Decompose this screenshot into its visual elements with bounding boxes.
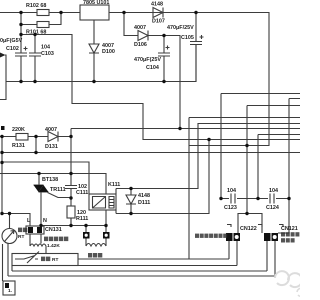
node ground C104: [162, 80, 165, 83]
wire relay top stub: [115, 189, 117, 214]
svg-text:RT: RT: [18, 234, 24, 240]
svg-text:C105: C105: [181, 35, 194, 41]
svg-text:R102 68: R102 68: [26, 3, 46, 9]
input arrow left: [0, 53, 6, 58]
node D131 output: [69, 135, 72, 138]
svg-text:7805 U101: 7805 U101: [83, 0, 109, 6]
resistor R101: [37, 22, 49, 28]
svg-text:C104: C104: [146, 65, 159, 71]
node heater left: [84, 224, 87, 227]
thermostat box: [12, 254, 78, 266]
node D111 anode: [129, 187, 132, 190]
relay contact: [109, 197, 114, 209]
wire CN122 leads: [229, 241, 237, 266]
diode D100: [89, 20, 99, 82]
wire relay top loop: [116, 124, 300, 189]
wire bus y98: [278, 99, 300, 234]
svg-text:220K: 220K: [12, 127, 25, 133]
wire R131 row: [0, 136, 48, 138]
heater plate leads: [86, 238, 106, 246]
heater pin right: [103, 232, 110, 239]
wire bottom bus y271: [12, 266, 267, 272]
svg-text:D131: D131: [45, 144, 58, 150]
svg-text:1.: 1.: [8, 288, 12, 294]
svg-text:R101 68: R101 68: [26, 30, 46, 36]
node mains N row: [39, 224, 42, 227]
capacitor C104: [158, 36, 170, 82]
node ground C103: [33, 80, 36, 83]
triac TR111: [34, 174, 72, 227]
node R131 output: [34, 135, 37, 138]
capacitor C103: [29, 35, 41, 82]
node C105 top: [194, 11, 197, 14]
svg-text:R131: R131: [12, 143, 25, 149]
node R111 bottom: [69, 224, 72, 227]
resistor R111: [67, 206, 75, 218]
ground rail: [6, 45, 196, 82]
node heater right: [104, 224, 107, 227]
wire U101 output rail: [109, 13, 269, 146]
capacitor C102: [15, 35, 28, 82]
node ground C102: [19, 80, 22, 83]
node bus B left: [0, 161, 3, 164]
svg-text:470μF/25V: 470μF/25V: [167, 25, 194, 31]
svg-text:N: N: [43, 218, 47, 224]
svg-text:D100: D100: [102, 49, 115, 55]
wire bus y93: [221, 94, 300, 199]
svg-text:C103: C103: [41, 51, 54, 57]
wire bottom bus y276: [8, 275, 275, 277]
wire CN131 down: [30, 234, 41, 246]
svg-text:C123: C123: [224, 205, 237, 211]
wire bus y134: [258, 135, 300, 199]
node R102 output: [59, 11, 62, 14]
resistor R131: [16, 134, 28, 141]
wire bus y128: [71, 128, 300, 130]
pot sensor circle: [2, 229, 17, 244]
svg-text:4148: 4148: [138, 193, 150, 199]
wire bottom bus y259: [38, 258, 229, 260]
diode D111: [126, 189, 136, 214]
svg-text:CN121: CN121: [281, 226, 298, 232]
diode D106: [138, 31, 148, 41]
node y145 tap: [245, 144, 248, 147]
node mains L: [0, 212, 3, 215]
connector CN122 pins: [226, 225, 240, 242]
wire relay bottom loop: [116, 140, 209, 214]
wire left input: [0, 55, 6, 100]
node C104 top: [162, 34, 165, 37]
svg-text:1.42K: 1.42K: [47, 243, 60, 249]
capacitor C123: [231, 194, 235, 204]
wire D106 branch: [124, 13, 180, 129]
node triac MT2: [37, 172, 40, 175]
node sensor circle feed: [8, 212, 11, 215]
svg-text:R111: R111: [76, 216, 88, 222]
regulator U101: [80, 5, 109, 20]
svg-text:C111: C111: [76, 190, 88, 196]
wire L feed: [2, 214, 30, 229]
node relay drive tap: [207, 138, 210, 141]
watermark: [275, 271, 305, 296]
node C111 top: [69, 172, 72, 175]
node C103 top: [33, 33, 36, 36]
wire R101 row: [21, 13, 61, 35]
svg-text:4148: 4148: [151, 2, 163, 8]
svg-text:104: 104: [227, 188, 236, 194]
node U101 output: [122, 11, 125, 14]
wire connector split: [238, 214, 262, 234]
node top rail / R102 input: [19, 11, 22, 14]
relay K111 box: [89, 194, 116, 210]
node C124 left: [256, 197, 259, 200]
Chinese label blobs: [18, 228, 299, 262]
svg-text:470μF(25V: 470μF(25V: [134, 57, 161, 63]
wire sensor leads: [3, 244, 9, 282]
svg-text:D107: D107: [152, 19, 165, 25]
plug box: [3, 281, 15, 295]
diode D131: [48, 132, 58, 142]
wire x71 column: [70, 129, 72, 226]
wire CN121 leads: [267, 241, 275, 276]
wire bus y105: [247, 106, 300, 214]
svg-text:CN122: CN122: [240, 226, 257, 232]
node ground D100: [92, 80, 95, 83]
wire bus y154: [2, 152, 300, 154]
svg-text:K111: K111: [108, 182, 120, 188]
node triac gate: [69, 196, 72, 199]
node bus A tap: [34, 151, 37, 154]
svg-text:104: 104: [41, 45, 50, 51]
connector CN131: [26, 226, 44, 234]
svg-text:TR111: TR111: [50, 187, 66, 193]
capacitor C111: [65, 186, 77, 189]
node left rail tick: [1, 126, 5, 130]
heater pin left: [83, 232, 90, 239]
svg-text:104: 104: [269, 188, 278, 194]
resistor R102: [37, 10, 49, 16]
wire N heater row: [41, 218, 106, 232]
wire bus y173: [0, 174, 106, 234]
wire top rail left: [0, 12, 80, 14]
capacitor C124: [270, 194, 274, 204]
wire left rail: [1, 137, 3, 214]
wire 12V feed: [21, 35, 300, 140]
svg-text:4007: 4007: [45, 127, 57, 133]
svg-text:BT138: BT138: [42, 177, 58, 183]
node C123 left: [219, 197, 222, 200]
svg-text:4007: 4007: [134, 25, 146, 31]
svg-text:RT: RT: [52, 257, 58, 263]
node 12V bus tap: [178, 127, 181, 130]
capacitor C105: [190, 13, 204, 82]
connector CN121 pins: [258, 225, 283, 242]
node D111 cathode: [129, 212, 132, 215]
svg-text:D111: D111: [138, 200, 150, 206]
heater plate coil: [86, 244, 106, 247]
wire bus y162: [2, 162, 89, 194]
svg-text:C124: C124: [266, 205, 279, 211]
svg-text:D106: D106: [134, 42, 147, 48]
svg-text:C102: C102: [6, 46, 19, 52]
thermostat RT: [15, 252, 39, 264]
wire D131 out: [36, 137, 71, 153]
node bus A left: [0, 151, 3, 154]
wire bus y117: [189, 118, 300, 260]
node C124 right: [287, 197, 290, 200]
node C102 top: [19, 33, 22, 36]
diode D107: [153, 8, 163, 18]
relay coil: [93, 197, 106, 209]
wire bottom bus y265: [12, 265, 237, 267]
node R131 input: [0, 135, 3, 138]
svg-text:CN131: CN131: [45, 227, 62, 233]
node R101 input: [19, 23, 22, 26]
svg-text:0μF(G5V: 0μF(G5V: [0, 38, 23, 44]
wire sensor cap row: [221, 198, 289, 200]
heater coil pot: [30, 244, 46, 253]
node connector split: [245, 212, 248, 215]
